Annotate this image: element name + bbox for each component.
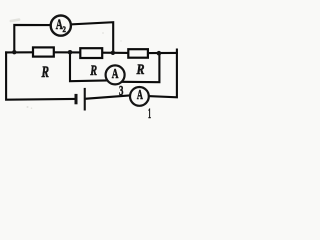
resistor R1 xyxy=(33,47,54,56)
wire top-left riser from node to A2 xyxy=(14,25,51,52)
wire bus R3-right segment xyxy=(149,52,177,54)
wire bus R2-R3 segment xyxy=(103,52,128,54)
svg-text:1: 1 xyxy=(148,106,151,119)
svg-text:2: 2 xyxy=(63,24,66,34)
svg-text:R: R xyxy=(41,64,49,81)
wire bus R1-R2 segment xyxy=(55,51,80,53)
node junction dot left xyxy=(12,50,16,54)
wire left rail and bottom-left xyxy=(6,52,75,99)
svg-text:R: R xyxy=(136,62,145,78)
battery positive plate (long thin) xyxy=(84,88,86,111)
wire bus left segment xyxy=(6,51,32,53)
wire A3 branch right riser xyxy=(123,53,160,82)
wire right rail xyxy=(149,50,177,98)
svg-text:3: 3 xyxy=(119,83,124,98)
svg-text:A: A xyxy=(137,88,144,103)
svg-text:A: A xyxy=(112,67,119,82)
wire battery to A1 xyxy=(86,95,130,98)
(scan smudges, decorative) xyxy=(9,18,121,109)
ammeter A2 xyxy=(51,16,71,36)
node junction dot A3-left xyxy=(68,50,73,55)
resistor R2 xyxy=(80,48,102,58)
ammeter A1 xyxy=(130,87,149,106)
svg-text:R: R xyxy=(90,63,98,79)
battery negative plate (short thick) xyxy=(75,94,78,104)
node junction dot A3-right xyxy=(157,51,162,56)
wire A3 branch left drop xyxy=(70,52,107,81)
wire top-right from A2 down to bus xyxy=(71,22,114,53)
ammeter A3 xyxy=(106,65,125,84)
node junction dot A2-right xyxy=(111,51,115,55)
resistor R3 xyxy=(128,49,148,58)
